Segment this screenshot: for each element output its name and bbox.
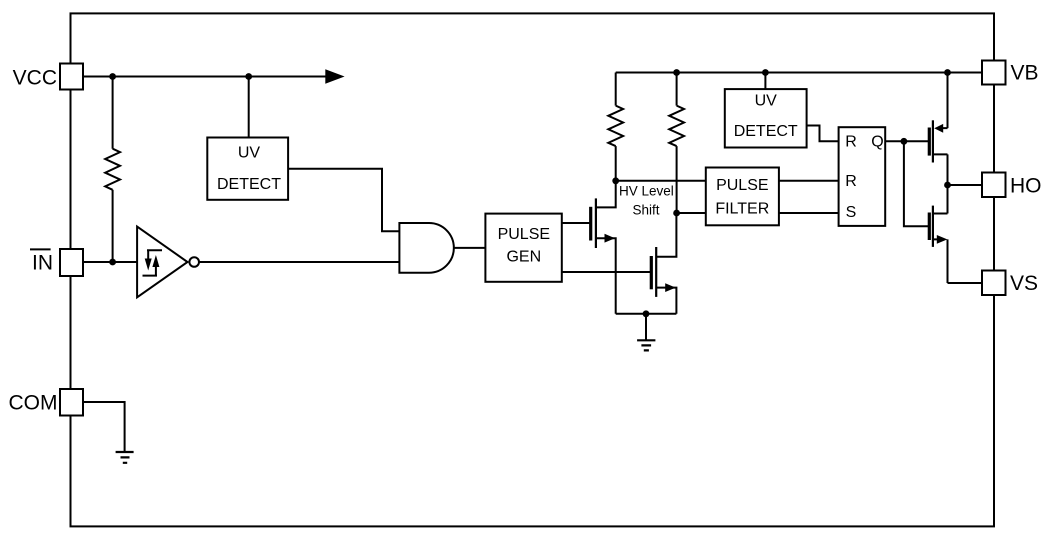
- arrow Q4 source: [937, 235, 948, 244]
- arrow Q2 source: [665, 283, 676, 292]
- pin VCC pad: [60, 64, 83, 90]
- junction VCC-R1: [109, 73, 116, 80]
- ground symbol level shift: [637, 340, 655, 350]
- svg-text:DETECT: DETECT: [734, 123, 798, 140]
- wire IN pad to schmitt input: [83, 261, 137, 263]
- resistor R2: [608, 106, 623, 147]
- wire rail to R2: [615, 73, 617, 106]
- wire Q node to Q4 gate: [904, 141, 929, 226]
- wire ground stem: [645, 314, 647, 340]
- wire Q1 drain to node A: [596, 181, 616, 208]
- junction VCC-U2: [245, 73, 252, 80]
- svg-text:DETECT: DETECT: [217, 176, 281, 193]
- hysteresis symbol: [143, 250, 163, 275]
- wire Q3 drain to Q4 drain: [933, 154, 948, 213]
- wire VCC to R1: [112, 77, 114, 149]
- transistor Q3: [929, 120, 933, 162]
- wire rail to R3: [676, 73, 678, 106]
- svg-text:UV: UV: [755, 93, 778, 110]
- wire HO node to pad: [948, 184, 983, 186]
- junction rail-U3: [762, 69, 769, 76]
- wire node A to pulse filter: [616, 180, 706, 182]
- svg-text:COM: COM: [9, 392, 58, 415]
- pin COM pad: [60, 389, 83, 416]
- svg-text:HV Level: HV Level: [619, 184, 674, 199]
- ground symbol COM: [116, 452, 134, 463]
- transistor Q1: [591, 198, 596, 248]
- wire AND output to pulse gen: [454, 247, 486, 249]
- svg-text:IN: IN: [32, 252, 53, 275]
- wire Q4 source to VS pad: [933, 239, 982, 283]
- arrow Q1 source: [605, 234, 616, 243]
- schmitt trigger U1: [137, 227, 199, 298]
- junction ground rail: [643, 310, 650, 317]
- arrow Q3 source: [934, 124, 943, 133]
- svg-text:PULSE: PULSE: [498, 226, 550, 243]
- svg-text:VCC: VCC: [13, 67, 57, 90]
- wire VCC to UV detect U2: [248, 77, 250, 138]
- junction Q node: [901, 138, 908, 145]
- pulse gen box: [485, 214, 561, 282]
- wire pulse gen to Q2 gate: [562, 271, 652, 273]
- pin IN pad: [60, 249, 83, 276]
- pin VS pad: [982, 271, 1006, 296]
- wire Q2 drain to node B: [656, 213, 676, 257]
- wire VB rail to Q3 source: [943, 73, 948, 129]
- wire R2 to node A: [615, 146, 617, 181]
- svg-text:R: R: [845, 134, 857, 151]
- svg-text:Q: Q: [871, 134, 883, 151]
- wire ground rail: [616, 313, 677, 315]
- svg-text:S: S: [846, 204, 857, 221]
- pin HO pad: [982, 173, 1006, 198]
- arrow on VCC rail: [325, 69, 344, 84]
- overline IN: [30, 248, 51, 250]
- resistor R3: [669, 106, 684, 147]
- node A junction: [612, 177, 619, 184]
- wire schmitt output to AND gate: [199, 261, 399, 263]
- wire COM to ground: [83, 402, 125, 452]
- HV Level Shift label: [619, 184, 674, 218]
- svg-text:Shift: Shift: [632, 203, 659, 218]
- wire VCC rail: [83, 76, 327, 78]
- wire R3 to node B: [676, 146, 678, 213]
- wire U3 output to latch R: [807, 126, 839, 142]
- node B junction: [673, 210, 680, 217]
- wire rail to UV detect U3: [764, 73, 766, 90]
- wire Q1 source to ground rail: [596, 238, 616, 314]
- svg-text:GEN: GEN: [506, 249, 541, 266]
- UV detect box U3: [725, 89, 807, 147]
- UV detect box U2: [207, 138, 288, 200]
- transistor Q4: [929, 206, 933, 247]
- wire node B to pulse filter: [677, 212, 706, 214]
- svg-text:VS: VS: [1010, 272, 1038, 295]
- svg-text:FILTER: FILTER: [715, 201, 769, 218]
- wire Q2 source to ground rail: [656, 288, 676, 314]
- wire pulse gen to Q1 gate: [562, 222, 591, 224]
- svg-text:VB: VB: [1011, 62, 1039, 85]
- AND gate G1: [399, 223, 453, 273]
- junction rail-Q3: [944, 69, 951, 76]
- junction HO node: [944, 182, 951, 189]
- junction rail-R3: [673, 69, 680, 76]
- pulse filter box: [706, 168, 779, 226]
- wire U2 output to AND gate: [288, 169, 399, 232]
- wire VB top rail: [616, 72, 982, 74]
- svg-text:PULSE: PULSE: [716, 177, 768, 194]
- junction IN-R1: [109, 259, 116, 266]
- wire pulse filter to latch S: [779, 212, 839, 214]
- svg-text:R: R: [845, 173, 857, 190]
- svg-text:UV: UV: [238, 145, 261, 162]
- svg-text:HO: HO: [1010, 174, 1042, 197]
- pin VB pad: [982, 61, 1006, 85]
- transistor Q2: [651, 247, 656, 297]
- wire pulse filter to latch R: [779, 180, 839, 182]
- latch U4: [839, 127, 886, 226]
- wire R1 to IN node: [112, 190, 114, 262]
- resistor R1: [105, 149, 120, 190]
- wire latch Q to Q3 gate: [885, 140, 929, 142]
